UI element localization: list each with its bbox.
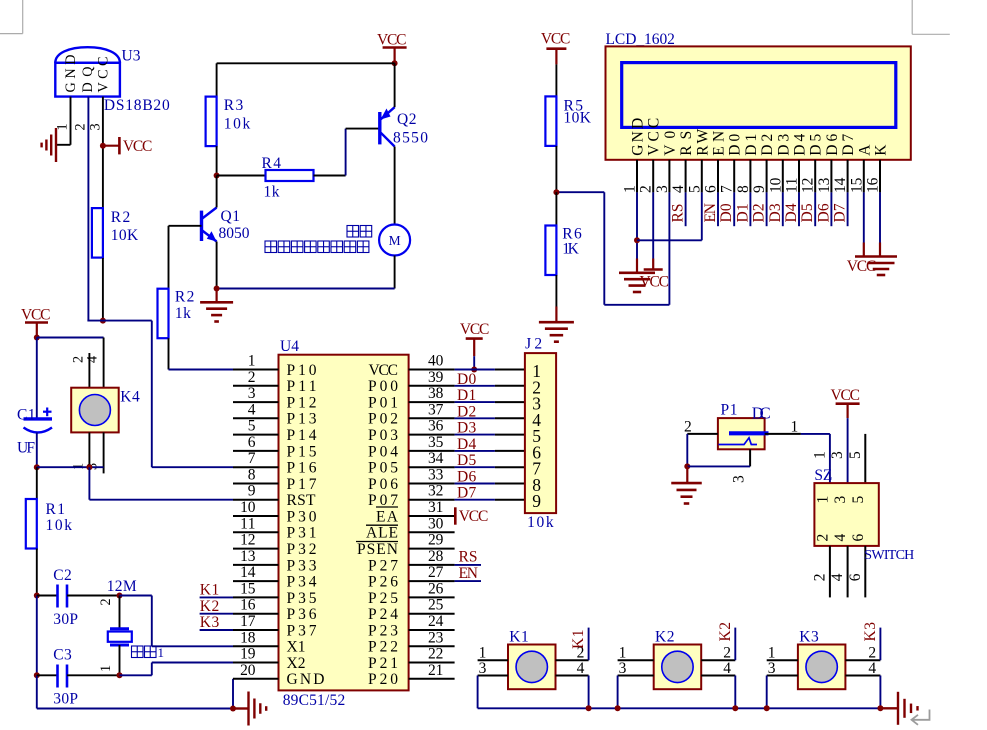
svg-text:3: 3: [88, 123, 104, 130]
svg-text:11: 11: [240, 515, 255, 532]
svg-text:4: 4: [577, 660, 585, 677]
junction K3 pin3 bus: [764, 705, 770, 711]
svg-text:P22: P22: [368, 639, 398, 656]
K3 pin 4 stub: [845, 675, 880, 677]
junction K3 pin4 bus: [877, 705, 883, 711]
svg-text:9: 9: [751, 185, 768, 193]
P1 pin 3 stub: [749, 449, 751, 466]
wire crystal to X2: [120, 674, 152, 676]
svg-text:5: 5: [248, 418, 256, 435]
button K1 body: [508, 645, 556, 690]
wire pin40 to J2 pin1: [455, 369, 495, 371]
svg-text:A: A: [856, 144, 873, 156]
svg-text:P36: P36: [287, 606, 317, 623]
U4 pin 38 P01 stub: [409, 401, 455, 403]
svg-text:4: 4: [723, 660, 731, 677]
svg-text:D5: D5: [457, 452, 476, 469]
U4 pin 20 GND stub: [233, 678, 279, 680]
svg-text:1: 1: [98, 665, 114, 672]
K1 pin 2 stub: [556, 659, 589, 661]
svg-text:D4: D4: [792, 134, 809, 156]
wire DQ vertical to P16: [151, 321, 153, 468]
svg-text:15: 15: [240, 580, 256, 597]
svg-text:P05: P05: [368, 460, 398, 477]
svg-text:30P: 30P: [53, 691, 78, 708]
U4 pin 10 P30 stub: [233, 515, 279, 517]
svg-text:P35: P35: [287, 590, 317, 607]
svg-text:38: 38: [428, 385, 444, 402]
K3 pin 1 stub: [767, 659, 798, 661]
wire R6 bottom: [555, 275, 557, 307]
wire top rail: [217, 62, 395, 64]
fan label chinese: [347, 226, 359, 238]
svg-text:K1: K1: [509, 629, 529, 646]
svg-text:27: 27: [428, 564, 444, 581]
svg-text:12: 12: [800, 178, 817, 193]
svg-text:DC: DC: [752, 404, 771, 423]
LCD pin 5 stub: [701, 160, 703, 193]
wire K3 pin2 up / net label K3: [879, 628, 881, 661]
svg-text:P26: P26: [368, 574, 398, 591]
svg-text:D7: D7: [457, 485, 476, 502]
svg-text:R1: R1: [46, 501, 66, 518]
U4 pin 22 P21 stub: [409, 662, 455, 664]
svg-text:4: 4: [248, 401, 256, 418]
svg-text:D6: D6: [815, 203, 832, 222]
svg-text:RW: RW: [694, 128, 711, 155]
svg-text:2: 2: [814, 534, 831, 542]
svg-text:K1: K1: [570, 630, 587, 650]
svg-text:31: 31: [428, 499, 443, 516]
page corner mark top-left: [22, 0, 24, 34]
svg-text:3: 3: [654, 185, 671, 193]
svg-text:EN: EN: [702, 203, 719, 223]
svg-text:40: 40: [428, 353, 444, 370]
svg-text:D2: D2: [759, 134, 776, 156]
svg-text:D7: D7: [840, 134, 857, 156]
svg-text:36: 36: [428, 418, 444, 435]
wire K1 pin3 down: [477, 676, 479, 709]
svg-text:K3: K3: [200, 614, 220, 631]
VCC symbol LCD pin2: [652, 259, 654, 270]
junction U3 pin3 VCC: [100, 143, 106, 149]
U4 pin 8 P17 stub: [233, 483, 279, 485]
U4 pin 21 P20 stub: [409, 678, 455, 680]
svg-text:P32: P32: [287, 541, 317, 558]
svg-text:16: 16: [240, 597, 256, 614]
svg-text:D1: D1: [457, 387, 476, 404]
svg-text:14: 14: [240, 564, 256, 581]
svg-text:D6: D6: [824, 134, 841, 156]
junction RST node left: [34, 464, 40, 470]
U4 pin 16 P36 stub: [233, 613, 279, 615]
svg-text:VCC: VCC: [123, 138, 152, 155]
svg-text:89C51/52: 89C51/52: [283, 692, 346, 709]
svg-text:P25: P25: [368, 590, 398, 607]
svg-text:D5: D5: [799, 203, 816, 222]
LCD pin 11 stub: [798, 160, 800, 193]
svg-text:DS18B20: DS18B20: [104, 97, 170, 114]
wire LCD pin16 K to ground: [879, 192, 881, 242]
svg-text:GND: GND: [287, 671, 325, 688]
svg-text:22: 22: [428, 646, 443, 663]
svg-text:D0: D0: [727, 134, 744, 156]
svg-text:1: 1: [768, 645, 776, 662]
svg-text:P34: P34: [287, 574, 317, 591]
svg-text:P02: P02: [368, 411, 398, 428]
wire K3 pin3 down: [766, 676, 768, 709]
U4 pin 25 P24 stub: [409, 613, 455, 615]
svg-text:P13: P13: [287, 411, 317, 428]
U4 pin 11 P31 stub: [233, 531, 279, 533]
svg-text:8: 8: [248, 467, 256, 484]
wire K4 pin3 down: [103, 432, 105, 473]
svg-text:6: 6: [850, 534, 867, 542]
U4 pin 24 P23 stub: [409, 629, 455, 631]
svg-text:D0: D0: [457, 371, 476, 388]
wire K2 pin2 up / net label K2: [734, 628, 736, 661]
svg-text:VCC: VCC: [831, 387, 861, 404]
U4 pin 29 PSEN stub: [409, 548, 455, 550]
wire SZ pin5 up stub: [864, 434, 866, 483]
wire K2 pin4 down: [734, 676, 736, 709]
LCD pin 2 stub: [652, 160, 654, 193]
J2 pin 5 stub: [495, 434, 525, 436]
wire P04 to J2 / net label D4: [455, 450, 495, 452]
svg-text:RST: RST: [287, 492, 317, 509]
U4 pin 2 P11 stub: [233, 385, 279, 387]
K1 pin 3 stub: [478, 675, 508, 677]
junction P1 ground: [684, 463, 690, 469]
svg-text:10K: 10K: [564, 110, 592, 127]
J2 pin 6 stub: [495, 450, 525, 452]
wire crystal to X1: [120, 595, 152, 597]
VCC bar and ground LCD pins 15/16: [855, 255, 897, 258]
wire RST node horizontal: [37, 466, 104, 468]
wire Q1 collector: [216, 176, 218, 208]
VCC symbol top fan: [383, 46, 407, 49]
svg-text:P01: P01: [368, 395, 398, 412]
wire K4 pin1 down: [88, 432, 90, 467]
U4 pin 17 P37 stub: [233, 629, 279, 631]
motor M fan: [379, 225, 410, 256]
svg-text:10: 10: [240, 499, 256, 516]
svg-text:P12: P12: [287, 395, 317, 412]
VCC symbol at U3 pin3: [103, 145, 120, 147]
wire LCD pin3 V0 route: [668, 192, 670, 304]
svg-text:35: 35: [428, 434, 444, 451]
svg-text:J2: J2: [525, 336, 542, 353]
wire P00 to J2 / net label D0: [455, 385, 495, 387]
wire P01 to J2 / net label D1: [455, 401, 495, 403]
svg-text:VCC: VCC: [459, 508, 489, 525]
crystal Y1 12M: [119, 596, 121, 629]
wire K3 pin4 down: [879, 676, 881, 709]
svg-text:D5: D5: [808, 134, 825, 156]
svg-text:R3: R3: [224, 97, 244, 114]
svg-text:1k: 1k: [175, 305, 191, 322]
svg-text:SWITCH: SWITCH: [864, 548, 914, 563]
U4 pin 40 VCC stub: [409, 369, 455, 371]
wire P06 to J2 / net label D6: [455, 483, 495, 485]
LCD pin 16 stub: [879, 160, 881, 193]
P1 pin 2 stub: [687, 433, 718, 435]
junction pin40 VCC: [471, 367, 477, 373]
svg-text:2: 2: [684, 419, 692, 436]
svg-text:VCC: VCC: [646, 118, 663, 156]
svg-text:30: 30: [428, 515, 444, 532]
wire K4 pin2 up: [88, 353, 90, 388]
svg-text:P15: P15: [287, 443, 317, 460]
svg-text:P00: P00: [368, 378, 398, 395]
svg-text:VCC: VCC: [369, 362, 399, 379]
svg-text:1: 1: [791, 419, 799, 436]
resistor R2 1k body: [158, 289, 169, 339]
svg-text:18: 18: [240, 629, 256, 646]
svg-text:39: 39: [428, 369, 444, 386]
resistor R1 10k body: [26, 499, 37, 549]
svg-text:P24: P24: [368, 606, 398, 623]
svg-text:5: 5: [850, 496, 867, 504]
svg-text:EN: EN: [459, 565, 479, 582]
svg-text:K3: K3: [799, 629, 819, 646]
overline PSEN: [356, 541, 398, 543]
ground fan section: [216, 289, 218, 303]
svg-text:D3: D3: [775, 134, 792, 156]
LCD pin 10 stub: [782, 160, 784, 193]
svg-text:C2: C2: [53, 567, 72, 584]
svg-text:10: 10: [767, 177, 784, 193]
svg-text:3: 3: [832, 496, 849, 504]
wire P07 to J2 / net label D7: [455, 499, 495, 501]
fan polarity note chinese: [265, 241, 277, 253]
svg-text:8050: 8050: [219, 225, 250, 242]
svg-text:M: M: [389, 233, 401, 248]
svg-text:GND: GND: [630, 118, 647, 156]
svg-text:21: 21: [428, 662, 443, 679]
svg-text:SZ: SZ: [814, 467, 832, 484]
crystal name chinese: [132, 646, 144, 658]
resistor R3 10k body: [206, 97, 217, 147]
wire GND pin down: [232, 679, 234, 709]
U4 pin 4 P13 stub: [233, 417, 279, 419]
svg-text:RS: RS: [459, 549, 478, 566]
svg-text:34: 34: [428, 450, 444, 467]
wire motor bottom: [394, 256, 396, 289]
wire LCD pin2 VCC down: [652, 192, 654, 258]
svg-text:U3: U3: [122, 48, 141, 65]
button K3 body: [798, 645, 846, 690]
wire DQ to P16 stub: [152, 466, 233, 468]
svg-text:13: 13: [816, 177, 833, 193]
svg-text:D2: D2: [457, 403, 476, 420]
svg-text:VCC: VCC: [96, 57, 112, 93]
svg-text:1: 1: [248, 353, 256, 370]
svg-text:VCC: VCC: [21, 307, 51, 324]
K1 pin 1 stub: [478, 659, 508, 661]
K2 pin 3 stub: [618, 675, 654, 677]
svg-text:ALE: ALE: [366, 525, 398, 542]
wire to Q2 base: [346, 128, 379, 130]
svg-text:P04: P04: [368, 443, 398, 460]
SZ bottom pin wires: [829, 546, 831, 598]
svg-text:UF: UF: [17, 440, 35, 457]
svg-text:1: 1: [814, 496, 831, 504]
svg-text:P20: P20: [368, 671, 398, 688]
U4 pin 18 X1 stub: [233, 645, 279, 647]
svg-text:2: 2: [248, 369, 256, 386]
wire R2 10K bottom: [102, 258, 104, 321]
svg-text:25: 25: [428, 597, 444, 614]
svg-text:K4: K4: [120, 389, 140, 406]
junction crystal bottom: [117, 672, 123, 678]
svg-text:19: 19: [240, 646, 256, 663]
U4 pin 15 P35 stub: [233, 596, 279, 598]
wire C1 bottom: [36, 433, 38, 468]
svg-text:2: 2: [73, 123, 89, 130]
wire to R3 top: [216, 63, 218, 96]
K3 pin 2 stub: [845, 659, 880, 661]
svg-text:9: 9: [532, 491, 541, 511]
svg-text:7: 7: [248, 450, 256, 467]
capacitor C1 electrolytic: [36, 338, 38, 419]
svg-text:14: 14: [832, 177, 849, 193]
svg-text:4: 4: [868, 660, 876, 677]
svg-text:4: 4: [832, 534, 849, 542]
U4 pin 23 P22 stub: [409, 645, 455, 647]
svg-text:X2: X2: [287, 655, 306, 672]
svg-text:RS: RS: [670, 204, 687, 223]
U4 pin 37 P02 stub: [409, 417, 455, 419]
svg-text:P27: P27: [368, 557, 398, 574]
wire Q2 emitter up: [394, 63, 396, 107]
svg-text:1: 1: [619, 645, 627, 662]
DC jack contact: [719, 438, 758, 445]
U4 pin 12 P32 stub: [233, 548, 279, 550]
J2 pin 2 stub: [495, 385, 525, 387]
ground bottom right: [880, 707, 898, 709]
wire K1 pin4 down: [588, 676, 590, 709]
wire R4 to Q2 base vertical: [345, 129, 347, 176]
junction C2 rail: [34, 593, 40, 599]
svg-text:R4: R4: [262, 155, 282, 172]
svg-text:P03: P03: [368, 427, 398, 444]
J2 pin 4 stub: [495, 417, 525, 419]
VCC symbol above SZ: [836, 402, 860, 405]
ground below R6: [555, 307, 557, 323]
svg-text:P21: P21: [368, 655, 398, 672]
wire Q2 collector to motor: [394, 147, 396, 225]
svg-text:6: 6: [703, 185, 720, 193]
net label EN at pin 27: [455, 580, 481, 582]
wire DQ horizontal: [87, 320, 151, 322]
ground LCD pin1: [636, 259, 638, 273]
wire Q1 emitter down: [216, 242, 218, 289]
wire K4 pin4 up: [103, 338, 105, 388]
VCC symbol at pin 31 EA: [454, 507, 457, 524]
svg-text:26: 26: [428, 580, 444, 597]
bottom ground bus: [478, 707, 881, 709]
wire R5 bottom: [555, 146, 557, 192]
U4 pin 7 P16 stub: [233, 466, 279, 468]
LCD pin 1 stub: [636, 160, 638, 193]
svg-text:U4: U4: [280, 338, 299, 355]
U4 pin 19 X2 stub: [233, 662, 279, 664]
resistor R2 10K body: [92, 208, 103, 258]
LCD_1602 body: [606, 46, 911, 159]
junction VCC top: [392, 60, 398, 66]
junction R3/R4/Q1: [214, 173, 220, 179]
LCD pin 3 stub: [668, 160, 670, 193]
wire P1 pin1 to SZ: [801, 433, 830, 435]
junction Q1 emitter ground: [214, 286, 220, 292]
svg-text:VCC: VCC: [541, 31, 571, 48]
junction K4 pin1: [86, 464, 92, 470]
svg-text:13: 13: [240, 548, 256, 565]
pilcrow return mark: [912, 710, 930, 725]
svg-text:8: 8: [735, 185, 752, 193]
LCD pin 8 stub: [749, 160, 751, 193]
svg-text:C1: C1: [17, 407, 36, 424]
U4 pin 5 P14 stub: [233, 434, 279, 436]
ground at U3 pin1: [55, 128, 57, 162]
svg-text:C3: C3: [53, 647, 72, 664]
svg-text:30P: 30P: [53, 611, 78, 628]
U4 pin 13 P33 stub: [233, 564, 279, 566]
junction K2 pin3 bus: [615, 705, 621, 711]
svg-text:GND: GND: [63, 55, 79, 93]
svg-text:D1: D1: [734, 203, 751, 222]
svg-text:P06: P06: [368, 476, 398, 493]
resistor R6 1K body: [545, 226, 556, 276]
svg-text:PSEN: PSEN: [357, 541, 398, 558]
svg-text:K2: K2: [655, 629, 675, 646]
U4 pin 1 P10 stub: [233, 369, 279, 371]
wire to R4: [217, 175, 266, 177]
J2 pin 3 stub: [495, 401, 525, 403]
junction VCC rail: [34, 335, 40, 341]
svg-text:P10: P10: [287, 362, 317, 379]
svg-text:VCC: VCC: [847, 258, 877, 275]
wire rail C2 to C3: [36, 596, 38, 676]
wire Q1 base: [169, 225, 202, 227]
junction C3 rail: [34, 672, 40, 678]
svg-text:K1: K1: [200, 582, 220, 599]
svg-text:EA: EA: [376, 508, 399, 525]
K2 pin 4 stub: [701, 675, 735, 677]
svg-text:3: 3: [479, 660, 487, 677]
wire VCC rail to K4: [37, 337, 104, 339]
svg-text:4: 4: [829, 573, 846, 581]
wire R1 bottom: [36, 549, 38, 596]
svg-text:4: 4: [670, 185, 687, 193]
J2 pin 7 stub: [495, 466, 525, 468]
svg-text:16: 16: [865, 177, 882, 193]
transistor Q2 8550 PNP: [380, 107, 395, 146]
transistor Q1 8050 NPN: [202, 208, 217, 242]
svg-text:D1: D1: [743, 134, 760, 156]
svg-text:P16: P16: [287, 460, 317, 477]
overline ALE: [366, 524, 398, 526]
junction crystal top: [117, 593, 123, 599]
svg-text:23: 23: [428, 629, 444, 646]
wire U3 pin1 to ground: [70, 97, 72, 145]
wire rail to bottom bus: [36, 675, 38, 708]
K3 pin 3 stub: [767, 675, 798, 677]
svg-text:2: 2: [638, 185, 655, 193]
svg-text:10K: 10K: [111, 227, 139, 244]
wire to RST stub: [89, 499, 233, 501]
